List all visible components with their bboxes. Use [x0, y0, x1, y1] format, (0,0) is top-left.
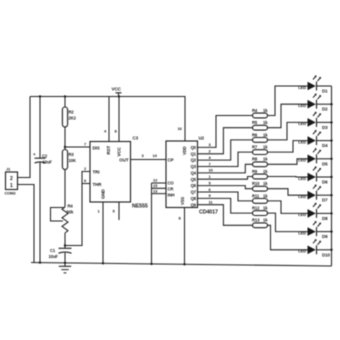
svg-text:VDD: VDD	[182, 146, 187, 155]
svg-text:1k: 1k	[263, 145, 268, 150]
wire 555 pin6 THR	[82, 183, 90, 185]
svg-text:CR: CR	[168, 187, 174, 192]
LED D2	[298, 94, 328, 112]
svg-text:3: 3	[142, 153, 145, 158]
svg-text:VCC: VCC	[117, 146, 122, 156]
svg-text:D5: D5	[322, 161, 328, 166]
wire Q0 to R4	[198, 116, 253, 148]
wire C2 branch upper	[39, 97, 41, 159]
svg-text:D10: D10	[322, 252, 331, 257]
svg-text:C3: C3	[133, 136, 139, 141]
resistor R10 1k	[252, 181, 268, 191]
svg-text:Q0: Q0	[191, 145, 197, 150]
wire D2 cathode to bus	[317, 103, 332, 105]
svg-text:6: 6	[84, 178, 87, 183]
wire VCC top rail	[30, 97, 185, 142]
resistor R3 10K	[62, 150, 76, 170]
svg-text:12: 12	[153, 178, 158, 183]
svg-text:2: 2	[10, 176, 13, 182]
wire Q7 to R11	[198, 192, 253, 201]
svg-text:CP: CP	[168, 158, 174, 163]
wire R3 to R4	[64, 170, 66, 208]
svg-text:CO: CO	[168, 181, 175, 186]
wire D7 cathode to bus	[317, 194, 332, 196]
svg-text:THR: THR	[93, 182, 103, 187]
wire 555 pin4 RST to rail	[108, 97, 110, 142]
wire C1 to ground rail	[64, 253, 66, 263]
LED D9	[298, 222, 328, 240]
svg-text:Q9: Q9	[191, 202, 197, 207]
svg-text:U2: U2	[199, 136, 205, 141]
node DIS junction	[64, 146, 66, 148]
resistor R2 2K2	[62, 107, 76, 127]
svg-text:1k: 1k	[263, 218, 268, 223]
wire LED cathode bus	[331, 86, 333, 266]
svg-text:LED: LED	[298, 176, 306, 181]
svg-text:C1: C1	[50, 248, 56, 253]
svg-text:COM2: COM2	[5, 191, 17, 196]
svg-text:R5: R5	[252, 120, 258, 125]
wire R6 to D3	[268, 122, 308, 139]
power VCC symbol	[112, 87, 122, 97]
LED D10	[298, 240, 330, 257]
svg-text:1k: 1k	[263, 193, 268, 198]
svg-text:10uF: 10uF	[49, 254, 59, 259]
svg-text:10K: 10K	[69, 158, 76, 163]
svg-text:11: 11	[209, 200, 214, 205]
svg-text:DIS: DIS	[93, 146, 100, 151]
svg-text:NE555: NE555	[132, 204, 148, 210]
svg-text:J1: J1	[6, 167, 11, 172]
svg-text:TRI: TRI	[93, 170, 100, 175]
svg-text:D8: D8	[322, 216, 328, 221]
wire C2 branch lower	[39, 163, 41, 263]
wire 4017 pin8 VSS to ground rail	[184, 208, 186, 265]
svg-text:4: 4	[104, 129, 107, 134]
svg-text:Q4: Q4	[191, 171, 197, 176]
svg-text:4: 4	[209, 155, 212, 160]
svg-text:1k: 1k	[263, 120, 268, 125]
svg-text:8: 8	[179, 216, 182, 221]
svg-text:10uF: 10uF	[43, 160, 53, 165]
svg-text:1: 1	[10, 183, 13, 189]
wire D5 cathode to bus	[317, 158, 332, 160]
wire R9 to D6	[268, 176, 308, 179]
svg-text:1: 1	[209, 174, 212, 179]
ground symbol	[59, 263, 71, 273]
resistor R11 1k	[252, 193, 268, 203]
svg-text:Q8: Q8	[191, 196, 197, 201]
svg-text:LED: LED	[298, 85, 306, 90]
wire D4 cathode to bus	[317, 140, 332, 142]
svg-text:R7: R7	[252, 145, 258, 150]
svg-text:10: 10	[209, 168, 214, 173]
svg-text:6: 6	[209, 187, 212, 192]
wire R7 to D4	[268, 141, 308, 153]
wire D1 cathode to bus	[317, 85, 332, 87]
wire rail to R2	[64, 97, 66, 108]
svg-text:50k: 50k	[67, 210, 74, 215]
svg-text:GND: GND	[101, 188, 106, 199]
wire DIS node to 555 pin7	[65, 146, 90, 148]
svg-text:R12: R12	[252, 206, 260, 211]
wire D3 cathode to bus	[317, 121, 332, 123]
wire R4 to C1 node	[64, 233, 66, 248]
wire 4017 pins 12 15 13 to ground	[152, 183, 167, 264]
wire R2 to DIS node	[64, 127, 66, 150]
svg-text:5: 5	[209, 180, 212, 185]
svg-text:1k: 1k	[263, 157, 268, 162]
wire R4 to D1	[268, 86, 308, 116]
svg-text:Q7: Q7	[191, 190, 197, 195]
svg-text:5: 5	[113, 209, 116, 214]
svg-text:R8: R8	[252, 157, 258, 162]
resistor R4 1k	[252, 108, 268, 118]
wire COM2 pin1 to ground rail	[18, 185, 35, 263]
wire R5 to D2	[268, 104, 308, 128]
svg-text:D9: D9	[322, 234, 328, 239]
resistor R5 1k	[252, 120, 268, 130]
svg-text:VCC: VCC	[112, 87, 122, 92]
svg-text:R4: R4	[68, 204, 74, 209]
potentiometer R4 50k	[51, 204, 74, 234]
svg-text:D2: D2	[322, 107, 328, 112]
svg-text:2: 2	[84, 166, 87, 171]
wire Q9 to R13	[198, 205, 253, 226]
wire Q8 to R12	[198, 198, 253, 213]
capacitor C1 10uF	[49, 248, 72, 259]
svg-text:R4: R4	[252, 108, 258, 113]
LED D8	[298, 203, 328, 221]
wire 555 pin5 CV stub	[118, 202, 120, 220]
resistor R12 1k	[252, 206, 268, 216]
svg-text:1k: 1k	[263, 206, 268, 211]
wire D8 cathode to bus	[317, 212, 332, 214]
resistor R6 1k	[252, 132, 268, 142]
svg-text:D1: D1	[322, 89, 328, 94]
svg-text:LED: LED	[298, 121, 306, 126]
svg-text:OUT: OUT	[119, 158, 129, 163]
svg-text:1k: 1k	[263, 181, 268, 186]
LED D1	[298, 76, 328, 94]
wire R10 to D7	[268, 189, 308, 196]
resistor R7 1k	[252, 145, 268, 155]
op-amp U2 CD4017 counter	[166, 136, 218, 216]
svg-text:8: 8	[115, 129, 118, 134]
LED D3	[298, 112, 328, 129]
wire D10 cathode to bus	[317, 249, 332, 251]
svg-text:13: 13	[153, 188, 158, 193]
svg-text:LED: LED	[298, 212, 306, 217]
svg-text:INH: INH	[168, 193, 175, 198]
resistor R8 1k	[252, 157, 268, 167]
svg-text:D6: D6	[322, 180, 328, 185]
svg-text:Q6: Q6	[191, 183, 197, 188]
svg-text:1k: 1k	[263, 108, 268, 113]
op-amp U1 NE555 timer	[90, 142, 148, 210]
svg-text:R2: R2	[69, 110, 75, 115]
wire ground bottom rail	[31, 263, 332, 267]
svg-text:Q3: Q3	[191, 164, 197, 169]
svg-text:LED: LED	[298, 103, 306, 108]
svg-text:C2: C2	[42, 154, 48, 159]
connector J1 COM2	[5, 167, 18, 196]
svg-text:VSS: VSS	[180, 197, 185, 205]
svg-text:D3: D3	[322, 125, 328, 130]
svg-text:Q2: Q2	[191, 158, 197, 163]
svg-text:7: 7	[209, 161, 212, 166]
LED D6	[298, 167, 328, 185]
wire R12 to D9	[268, 213, 308, 232]
node TRIG/THR/C1 junction	[64, 244, 66, 246]
wire R8 to D5	[268, 159, 308, 165]
node VCC junction dots on top rail	[39, 95, 41, 97]
wire R13 to D10	[268, 225, 308, 250]
resistor R9 1k	[252, 169, 268, 179]
wire Q5 to R9	[198, 177, 253, 180]
svg-text:R3: R3	[69, 152, 75, 157]
svg-text:R11: R11	[252, 193, 260, 198]
wire Q6 to R10	[198, 186, 253, 189]
svg-text:15: 15	[153, 183, 158, 188]
svg-text:Q5: Q5	[191, 177, 197, 182]
svg-text:2K2: 2K2	[69, 116, 77, 121]
svg-text:1: 1	[98, 209, 101, 214]
wire 555 pin3 OUT to 4017 CP	[131, 159, 167, 161]
capacitor C2 10uF	[33, 152, 52, 165]
svg-text:RST: RST	[106, 145, 111, 154]
svg-text:2: 2	[209, 149, 212, 154]
wire 555 pin8 VCC to rail	[118, 97, 120, 142]
svg-text:D7: D7	[322, 198, 328, 203]
svg-text:+: +	[33, 152, 36, 157]
svg-text:Q1: Q1	[191, 151, 197, 156]
wire Q4 to R8	[198, 164, 253, 173]
wire COM2 pin2 to VCC rail	[18, 97, 31, 178]
svg-text:3: 3	[209, 142, 212, 147]
svg-text:7: 7	[84, 142, 87, 147]
svg-text:LED: LED	[298, 194, 306, 199]
svg-text:14: 14	[153, 153, 158, 158]
svg-text:9: 9	[209, 193, 212, 198]
svg-text:LED: LED	[298, 139, 306, 144]
wire D6 cathode to bus	[317, 176, 332, 178]
svg-text:LED: LED	[298, 230, 306, 235]
LED D7	[298, 185, 328, 203]
wire 555 pin2 TRIG	[65, 172, 90, 246]
wire R11 to D8	[268, 201, 308, 214]
svg-text:LED: LED	[298, 249, 306, 254]
wire 555 pin1 GND to rail	[102, 202, 104, 263]
wire D9 cathode to bus	[317, 231, 332, 233]
wire Q2 to R6	[198, 140, 253, 160]
LED D5	[298, 149, 328, 167]
svg-text:LED: LED	[298, 158, 306, 163]
svg-text:CD4017: CD4017	[199, 210, 218, 216]
svg-text:16: 16	[178, 126, 183, 131]
svg-text:1k: 1k	[263, 169, 268, 174]
svg-text:R6: R6	[252, 132, 258, 137]
LED D4	[298, 131, 328, 149]
resistor R13 1k	[252, 218, 268, 228]
svg-text:D4: D4	[322, 143, 328, 148]
wire Q1 to R5	[198, 128, 253, 154]
svg-text:R13: R13	[252, 218, 260, 223]
svg-text:1k: 1k	[263, 132, 268, 137]
svg-text:R10: R10	[252, 181, 260, 186]
wire Q3 to R7	[198, 152, 253, 166]
svg-text:R9: R9	[252, 169, 258, 174]
